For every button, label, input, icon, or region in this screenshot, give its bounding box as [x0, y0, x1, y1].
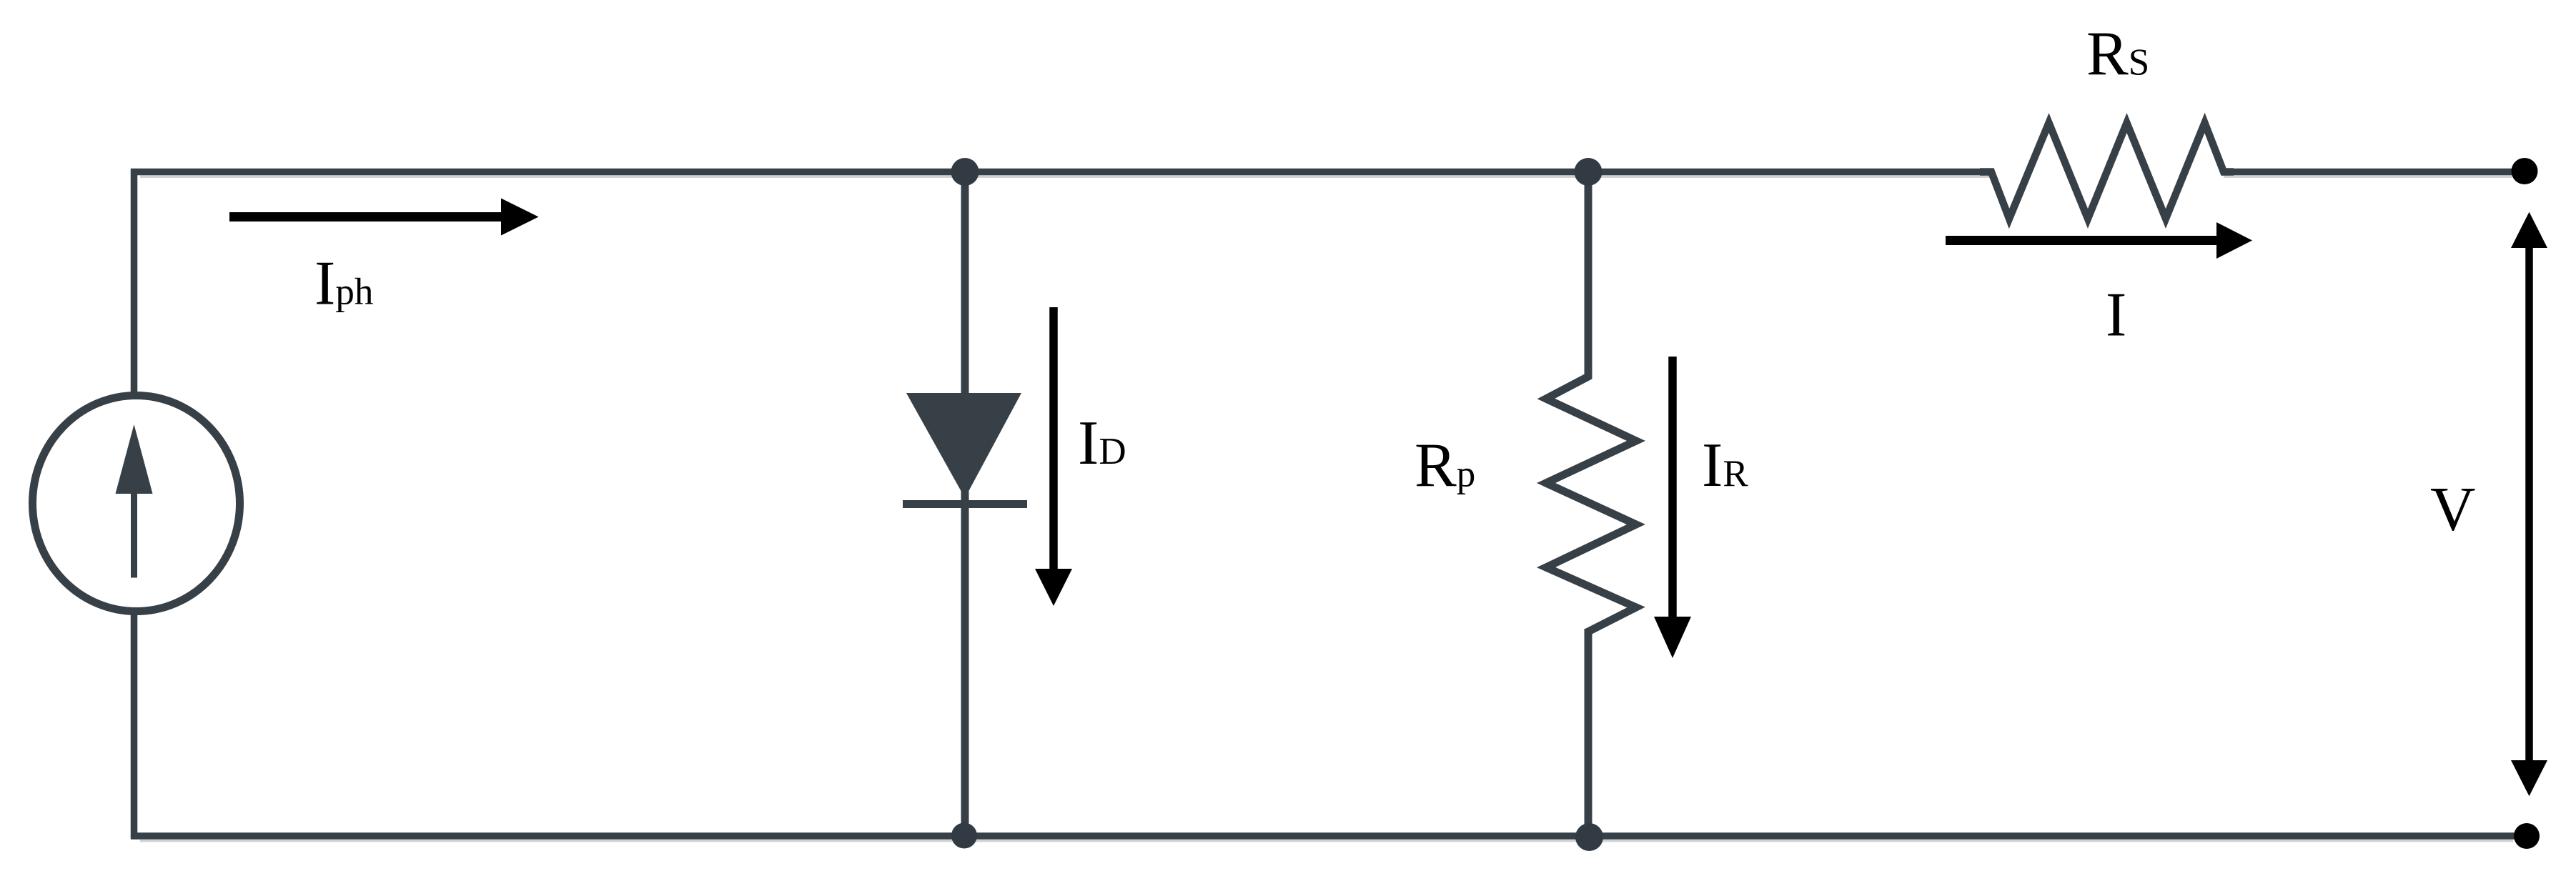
wire shadow top right [2224, 176, 2512, 178]
resistor Rp zigzag [1546, 366, 1636, 640]
svg-text:I: I [2106, 281, 2126, 350]
wire Rp branch lower [1585, 629, 1592, 836]
current source I_ph circle [33, 396, 240, 612]
junction node top Rp [1575, 158, 1602, 186]
diode D triangle [906, 393, 1021, 498]
resistor Rs zigzag [1980, 123, 2234, 219]
arrow V double-headed [2525, 246, 2533, 762]
diode D cathode bar [903, 500, 1027, 508]
wire left lower [131, 612, 138, 839]
current source arrow shaft [131, 494, 137, 578]
wire left upper [131, 169, 138, 395]
arrow ID [1049, 307, 1058, 572]
svg-text:V: V [2430, 475, 2476, 544]
arrow I [1946, 236, 2220, 245]
terminal node top right [2512, 158, 2538, 184]
wire diode branch [961, 171, 969, 836]
junction node top diode [951, 158, 979, 186]
terminal node bottom right [2514, 823, 2540, 849]
wire bottom [131, 832, 2527, 840]
arrow Iph [229, 212, 505, 222]
wire top right [2224, 169, 2525, 176]
wire top left [131, 169, 1991, 176]
wire shadow bottom [140, 840, 2513, 842]
current source arrow head [116, 424, 153, 494]
wire shadow top [140, 176, 1991, 178]
wire Rp branch upper [1585, 171, 1592, 379]
junction node bottom Rp [1575, 823, 1603, 851]
arrow IR [1668, 357, 1677, 620]
junction node bottom diode [951, 823, 977, 849]
